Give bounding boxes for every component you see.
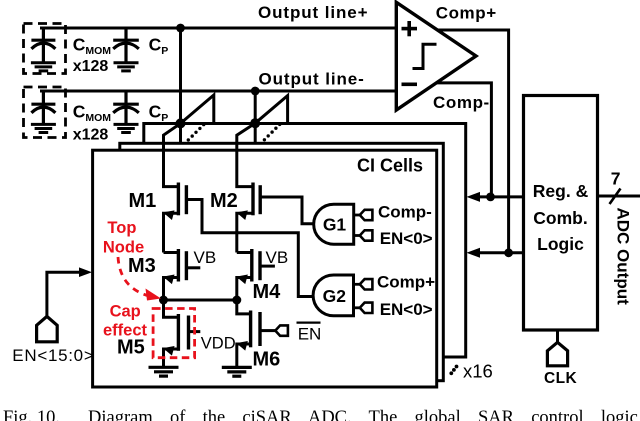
pin ENbar port (275, 325, 288, 335)
transistor M5 (164, 300, 201, 367)
svg-text:Top: Top (107, 219, 136, 237)
wire feedback line 1 (Comp- to cells) (479, 195, 524, 198)
capacitor CMOM bank 2 dashed box (24, 87, 66, 138)
svg-text:Comp+: Comp+ (377, 273, 435, 292)
junction dot on output line+ (176, 24, 185, 33)
svg-text:Node: Node (103, 238, 144, 256)
wire G1 input stubs (354, 214, 360, 217)
svg-text:Output line+: Output line+ (258, 3, 368, 22)
svg-text:Comb.: Comb. (533, 208, 587, 228)
wire flag2 diagonal to deeper layers (255, 96, 287, 124)
capacitor CMOM bank 1 dashed box (24, 24, 66, 74)
transistor M1 (164, 123, 187, 252)
junction dot feedback 2 (504, 248, 513, 257)
ground under CMOM1 (31, 63, 56, 71)
svg-text:Comp+: Comp+ (436, 3, 497, 22)
svg-text:M1: M1 (129, 190, 157, 212)
dotted ellipsis flag2 (263, 123, 282, 142)
transistor M2 (237, 123, 260, 252)
svg-text:EN: EN (298, 325, 322, 344)
svg-text:VDD: VDD (201, 335, 236, 353)
wire output line- drop to cells (254, 91, 257, 143)
svg-text:CMOM: CMOM (73, 35, 112, 58)
svg-text:CLK: CLK (544, 370, 577, 387)
CI cell stack middle box (120, 143, 444, 380)
pin CLK (556, 330, 559, 343)
junction dot flag1 (176, 118, 186, 128)
gate G2 (313, 275, 353, 316)
wire ADC output (598, 195, 640, 198)
ground under M5 (149, 367, 179, 376)
svg-text:ADC Output: ADC Output (614, 208, 633, 306)
svg-text:Reg. &: Reg. & (533, 181, 589, 201)
pin Comp+ port (G2) (360, 279, 373, 289)
svg-text:7: 7 (611, 169, 621, 189)
svg-text:effect: effect (103, 322, 148, 340)
wire Comp- output (436, 83, 491, 197)
pin EN0 port (G1) (360, 230, 373, 240)
svg-text:EN<0>: EN<0> (380, 300, 433, 319)
capacitor CMOM1 (31, 28, 55, 63)
comparator U1 (396, 2, 476, 110)
capacitor CP2 (113, 91, 139, 124)
wire Output line+ (40, 27, 396, 30)
wire top node rail (164, 299, 237, 302)
red dashed arrow to top node (118, 257, 149, 296)
junction dot flag2 (250, 118, 260, 128)
block Reg and Comb Logic (524, 96, 598, 331)
svg-text:EN<0>: EN<0> (380, 229, 433, 248)
svg-text:Logic: Logic (537, 234, 584, 254)
svg-text:M6: M6 (253, 349, 281, 371)
junction dot M4/M6 (232, 296, 241, 305)
svg-text:CP: CP (149, 101, 169, 124)
junction dot feedback 1 (486, 193, 495, 202)
CI cell stack back box (x16) (144, 124, 466, 358)
svg-text:Cap: Cap (110, 303, 141, 321)
svg-text:VB: VB (266, 248, 289, 267)
svg-text:G2: G2 (323, 286, 347, 306)
svg-text:x16: x16 (463, 361, 493, 382)
wire Output line- (40, 90, 396, 93)
transistor M4 (237, 249, 275, 300)
svg-text:Diagram of the ciSAR ADC. The: Diagram of the ciSAR ADC. The global SAR… (88, 408, 640, 421)
gate G1 (314, 204, 354, 244)
svg-text:x128: x128 (73, 58, 109, 75)
CI cell front box (93, 150, 437, 387)
svg-text:M4: M4 (253, 281, 282, 303)
wire M1 gate to G2 output (186, 200, 314, 297)
svg-text:CMOM: CMOM (73, 101, 112, 124)
red dashed box cap effect (153, 309, 195, 358)
svg-text:x128: x128 (73, 127, 109, 144)
svg-text:Output line-: Output line- (259, 69, 365, 88)
svg-text:EN<15:0>: EN<15:0> (12, 346, 94, 365)
ground under CP2 (114, 124, 139, 132)
bus slash (610, 189, 621, 205)
wire M2 gate to G1 output (260, 197, 314, 224)
wire output line+ drop to cells (179, 28, 182, 143)
transistor M6 (237, 300, 275, 367)
label x16 with ellipsis dots (449, 365, 458, 376)
wire Comp+ output (437, 30, 508, 253)
svg-text:CP: CP (149, 35, 169, 58)
ground under CP1 (114, 63, 139, 71)
wire feedback line 2 (Comp+ to cells) (479, 251, 524, 254)
junction dot on output line- (251, 87, 260, 96)
svg-text:VB: VB (194, 248, 217, 267)
svg-text:M5: M5 (117, 337, 145, 359)
transistor M3 (164, 249, 201, 300)
pin EN<15:0> (37, 316, 58, 341)
capacitor CP1 (113, 28, 139, 63)
svg-text:Comp-: Comp- (378, 203, 432, 222)
junction dot top node (159, 296, 168, 305)
pin Comp- port (G1) (360, 210, 373, 220)
capacitor CMOM2 (31, 91, 55, 124)
ground under CMOM2 (31, 124, 56, 132)
svg-text:M3: M3 (128, 255, 156, 277)
dotted ellipsis flag1 (187, 123, 206, 142)
ground under M6 (222, 367, 252, 376)
svg-text:Fig. 10.: Fig. 10. (3, 408, 60, 421)
svg-text:Comp-: Comp- (433, 93, 490, 112)
wire flag1 diagonal to deeper layers (181, 95, 214, 124)
svg-text:G1: G1 (323, 215, 347, 235)
pin EN0 port (G2) (360, 303, 373, 313)
svg-text:M2: M2 (210, 190, 238, 212)
svg-text:CI Cells: CI Cells (357, 155, 423, 175)
wire G2 input stubs (354, 283, 361, 286)
